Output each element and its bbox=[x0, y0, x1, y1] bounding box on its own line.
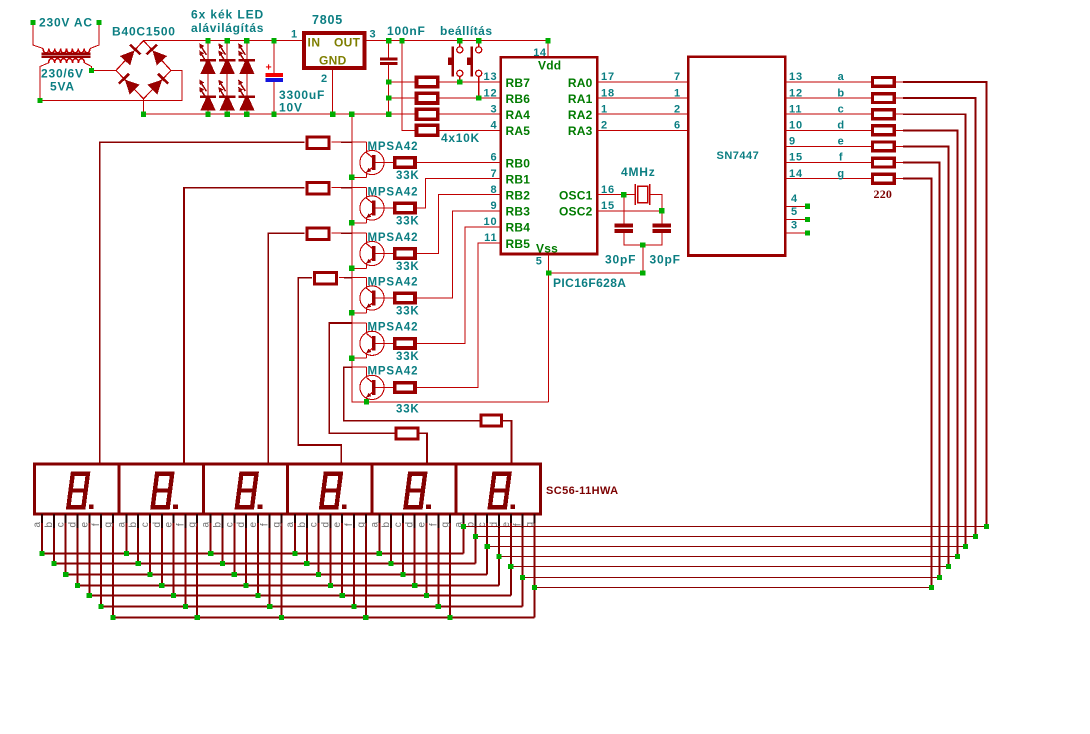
svg-text:OSC2: OSC2 bbox=[559, 205, 593, 219]
node OSC1/C3 bbox=[621, 192, 626, 197]
svg-text:18: 18 bbox=[601, 87, 615, 99]
wire AC1 to bridge left bbox=[92, 70, 117, 72]
wire Q6 base to RB5 pin 11 bbox=[417, 243, 501, 387]
svg-text:g: g bbox=[440, 522, 451, 528]
wire Vss down bbox=[548, 273, 550, 402]
wire C3 bottom lead bbox=[624, 233, 643, 245]
LED D10 (column 3 lower) bbox=[240, 83, 245, 91]
wire Q2 base lead bbox=[376, 207, 393, 209]
svg-text:4: 4 bbox=[490, 120, 497, 132]
svg-text:c: c bbox=[224, 522, 235, 527]
node Q4 emitter junction bbox=[349, 310, 354, 315]
transformer TR1 primary winding bbox=[43, 49, 90, 53]
node segment c right corner bbox=[963, 544, 968, 549]
wire segment b net to display 6 bbox=[475, 536, 975, 538]
node RB6 net tap bbox=[386, 95, 391, 100]
node segment b at display 6 bbox=[473, 534, 478, 539]
node display 3 pin e junction bbox=[255, 593, 260, 598]
node SW1 to RB7 bbox=[457, 79, 462, 84]
svg-text:6: 6 bbox=[490, 152, 497, 164]
node +V at C1 bbox=[271, 38, 276, 43]
display DS2 digit 8 bbox=[150, 472, 174, 510]
svg-text:b: b bbox=[44, 521, 55, 527]
wire to RN1b bbox=[389, 97, 415, 99]
wire R14 to display 5 common bbox=[419, 433, 427, 464]
wire display 6 pin a bbox=[463, 514, 465, 553]
svg-text:12: 12 bbox=[789, 87, 803, 99]
wire LED column 3 bbox=[246, 41, 248, 115]
node secondary right bbox=[89, 68, 94, 73]
display DS3 SC56-11HWA (digit 3) bbox=[203, 464, 287, 514]
transistor Q3 MPSA42 bbox=[360, 241, 384, 265]
display DS5 SC56-11HWA (digit 5) bbox=[372, 464, 456, 514]
wire display 3 pin e bbox=[257, 514, 259, 595]
wire display 1 pin d bbox=[77, 514, 79, 585]
wire display 2 pin f bbox=[184, 514, 186, 606]
LED D6 (column 1 lower) bbox=[201, 83, 206, 91]
svg-text:beállítás: beállítás bbox=[440, 24, 493, 38]
wire Q3 base to RB2 pin 8 bbox=[417, 195, 501, 254]
voltage regulator U3 7805 bbox=[304, 33, 365, 68]
node segment a right corner bbox=[984, 524, 989, 529]
node segment c at display 6 bbox=[485, 544, 490, 549]
wire segment e stub bbox=[896, 145, 903, 147]
node Q6 emitter junction bbox=[364, 399, 369, 404]
node ground at 7805 bbox=[330, 112, 335, 117]
svg-text:MPSA42: MPSA42 bbox=[368, 232, 419, 244]
wire RN1d to RA5 pin 4 bbox=[440, 129, 501, 131]
svg-text:PIC16F628A: PIC16F628A bbox=[553, 276, 626, 290]
node ground at C1 bbox=[271, 112, 276, 117]
wire display 4 pin g bbox=[365, 514, 367, 617]
wire display 2 pin b bbox=[137, 514, 139, 563]
svg-text:1: 1 bbox=[291, 29, 298, 41]
svg-text:d: d bbox=[68, 522, 79, 528]
resistor R3 220 (segment b) bbox=[873, 94, 895, 103]
wire Q4 emitter to rail bbox=[352, 312, 367, 314]
wire Q5 collector lead bbox=[366, 323, 368, 334]
wire display 2 pin d bbox=[161, 514, 163, 585]
node display 4 pin c junction bbox=[316, 572, 321, 577]
svg-text:230V AC: 230V AC bbox=[39, 16, 93, 30]
svg-text:RB0: RB0 bbox=[506, 156, 531, 170]
wire segment dark (digit3 net) bbox=[341, 232, 352, 234]
wire SN7447 output e to R6 bbox=[785, 145, 871, 147]
svg-text:c: c bbox=[309, 522, 320, 527]
node display 5 pin c junction bbox=[400, 572, 405, 577]
node +5V at C2 bbox=[386, 38, 391, 43]
svg-text:g: g bbox=[187, 522, 198, 528]
wire +V top bus bbox=[144, 40, 549, 42]
node display 5 pin d junction bbox=[412, 583, 417, 588]
svg-text:RB4: RB4 bbox=[506, 221, 531, 235]
svg-text:10: 10 bbox=[483, 216, 497, 228]
node display 4 pin e junction bbox=[340, 593, 345, 598]
svg-text:Vdd: Vdd bbox=[538, 59, 561, 73]
node LED column 1 top bbox=[205, 38, 210, 43]
svg-text:a: a bbox=[116, 521, 127, 527]
wire Q1 collector lead bbox=[366, 142, 368, 153]
wire RA0 to SN7447 bbox=[597, 81, 688, 83]
svg-text:11: 11 bbox=[484, 232, 497, 244]
wire 7805 GND to ground bus bbox=[332, 70, 334, 114]
node display 1 pin c junction bbox=[63, 572, 68, 577]
wire Q4 collector lead bbox=[366, 278, 368, 289]
resistor R14 (digit 5) bbox=[396, 428, 418, 439]
svg-text:c: c bbox=[140, 522, 151, 527]
svg-text:a: a bbox=[838, 71, 845, 83]
wire SN7447 output c to R4 bbox=[785, 113, 871, 115]
wire Q5 emitter lead bbox=[366, 353, 368, 358]
node 230V AC terminal right bbox=[96, 20, 101, 25]
display DS5 decimal point bbox=[426, 505, 431, 509]
capacitor C3 30pF bbox=[615, 223, 634, 227]
wire Q2 emitter to rail bbox=[352, 222, 367, 224]
svg-text:33K: 33K bbox=[396, 216, 420, 228]
node segment g right corner bbox=[929, 585, 934, 590]
wire SN7447 output b to R3 bbox=[785, 97, 871, 99]
resistor R8 220 (segment g) bbox=[873, 174, 895, 183]
capacitor C1 3300uF 10V (polarized) bbox=[265, 73, 283, 77]
svg-text:15: 15 bbox=[789, 152, 803, 164]
svg-text:15: 15 bbox=[601, 200, 615, 212]
svg-text:e: e bbox=[164, 521, 175, 527]
wire segment g stub bbox=[896, 178, 903, 180]
resistor R6 220 (segment e) bbox=[873, 142, 895, 151]
svg-text:14: 14 bbox=[533, 47, 547, 59]
wire segment c down right side bbox=[903, 114, 966, 546]
svg-text:30pF: 30pF bbox=[650, 253, 681, 267]
display DS4 decimal point bbox=[342, 505, 347, 509]
node RB7 net tap bbox=[386, 79, 391, 84]
svg-text:a: a bbox=[285, 521, 296, 527]
wire +5V to Vdd pin 14 bbox=[547, 41, 549, 58]
svg-text:1: 1 bbox=[674, 87, 681, 99]
resistor R15 (digit 6) bbox=[481, 415, 502, 426]
svg-text:f: f bbox=[91, 523, 102, 526]
svg-text:5: 5 bbox=[536, 256, 543, 268]
wire Q1 emitter to rail bbox=[352, 176, 367, 178]
wire C1 top lead bbox=[273, 41, 275, 74]
node SW2 to RB6 bbox=[476, 95, 481, 100]
svg-text:4x10K: 4x10K bbox=[441, 131, 480, 145]
svg-text:e: e bbox=[248, 521, 259, 527]
wire Q2 base to RB1 pin 7 bbox=[417, 179, 501, 208]
svg-text:g: g bbox=[837, 168, 844, 180]
transistor Q1 MPSA42 bbox=[360, 150, 384, 174]
wire segment d down right side bbox=[903, 130, 958, 556]
svg-text:8: 8 bbox=[490, 184, 497, 196]
svg-text:e: e bbox=[417, 521, 428, 527]
svg-text:9: 9 bbox=[490, 200, 497, 212]
wire Q3 collector to R12 bbox=[332, 232, 367, 234]
svg-text:RA0: RA0 bbox=[568, 76, 593, 90]
resistor RN1d (4x10K) bbox=[417, 125, 438, 135]
svg-text:g: g bbox=[272, 522, 283, 528]
wire Q1 collector to R10 bbox=[332, 141, 367, 143]
svg-text:d: d bbox=[152, 522, 163, 528]
wire display 2 pin e bbox=[173, 514, 175, 595]
wire segment a down right side bbox=[903, 82, 987, 527]
svg-text:RB7: RB7 bbox=[506, 76, 531, 90]
resistor R10 (digit 1) bbox=[307, 137, 329, 148]
node SN7447 pin 3 stub end bbox=[805, 230, 810, 235]
svg-text:c: c bbox=[393, 522, 404, 527]
node display 3 pin f junction bbox=[267, 604, 272, 609]
wire Q4 emitter lead bbox=[366, 308, 368, 313]
wire display 4 pin a bbox=[294, 514, 296, 553]
node display 3 pin b junction bbox=[220, 561, 225, 566]
wire display 2 pin a bbox=[125, 514, 127, 553]
svg-text:33K: 33K bbox=[396, 403, 420, 415]
wire display 3 pin g bbox=[281, 514, 283, 617]
svg-text:b: b bbox=[837, 87, 844, 99]
node secondary left bottom bbox=[37, 98, 42, 103]
wire R13 to display 4 common bbox=[298, 278, 341, 465]
wire display 4 pin e bbox=[341, 514, 343, 595]
svg-text:7805: 7805 bbox=[312, 13, 343, 27]
svg-text:4MHz: 4MHz bbox=[621, 165, 656, 179]
resistor RN1c (4x10K) bbox=[417, 109, 438, 119]
wire display 3 pin d bbox=[245, 514, 247, 585]
node display 3 pin d junction bbox=[244, 583, 249, 588]
wire RN1b to RB6 pin 12 bbox=[440, 97, 501, 99]
node display 1 pin b junction bbox=[51, 561, 56, 566]
node display 3 pin a junction bbox=[208, 551, 213, 556]
wire Q2 collector to R11 bbox=[332, 187, 367, 189]
wire SN7447 output d to R5 bbox=[785, 129, 871, 131]
wire Q2 collector lead bbox=[366, 188, 368, 199]
node Q1 emitter junction bbox=[349, 175, 354, 180]
node display 4 pin f junction bbox=[351, 604, 356, 609]
wire display 5 pin b bbox=[390, 514, 392, 563]
node Vss bbox=[546, 270, 551, 275]
svg-text:3: 3 bbox=[791, 220, 798, 232]
svg-text:4: 4 bbox=[791, 193, 798, 205]
wire OSC1 bbox=[597, 194, 635, 196]
node display 2 pin d junction bbox=[159, 583, 164, 588]
wire Q5 base to RB4 pin 10 bbox=[417, 227, 501, 343]
svg-text:MPSA42: MPSA42 bbox=[368, 322, 419, 334]
resistor RN1b (4x10K) bbox=[417, 93, 438, 103]
wire R11 to display 2 common bbox=[184, 188, 305, 465]
svg-text:10: 10 bbox=[789, 120, 803, 132]
resistor 33K (Q2 base) bbox=[395, 203, 415, 212]
wire Q6 collector lead bbox=[366, 367, 368, 378]
svg-text:MPSA42: MPSA42 bbox=[368, 141, 419, 153]
display DS5 digit 8 bbox=[403, 472, 427, 510]
wire display 2 pin g bbox=[196, 514, 198, 617]
display DS4 SC56-11HWA (digit 4) bbox=[288, 464, 372, 514]
svg-text:c: c bbox=[838, 103, 845, 115]
node SN7447 pin 5 stub end bbox=[805, 217, 810, 222]
wire segment g net to display 6 bbox=[534, 587, 931, 589]
wire segment g down right side bbox=[903, 179, 932, 588]
svg-text:e: e bbox=[79, 521, 90, 527]
wire display 5 pin d bbox=[414, 514, 416, 585]
svg-text:7: 7 bbox=[674, 71, 681, 83]
wire R15 to display 6 common bbox=[503, 421, 511, 465]
wire display 5 pin a bbox=[378, 514, 380, 553]
svg-text:SC56-11HWA: SC56-11HWA bbox=[546, 485, 618, 497]
svg-text:9: 9 bbox=[789, 136, 796, 148]
wire crystal to OSC2 bbox=[650, 195, 662, 211]
wire Q1 emitter lead bbox=[366, 172, 368, 177]
wire +5V to RN1d bbox=[402, 41, 415, 131]
svg-text:6x kék LED: 6x kék LED bbox=[191, 8, 264, 22]
wire display 4 pin c bbox=[318, 514, 320, 574]
wire secondary left lead bbox=[40, 63, 49, 101]
svg-text:33K: 33K bbox=[396, 351, 420, 363]
display DS1 SC56-11HWA (digit 1) bbox=[35, 464, 119, 514]
transistor Q5 MPSA42 bbox=[360, 331, 384, 355]
wire display 3 pin a bbox=[210, 514, 212, 553]
svg-text:f: f bbox=[175, 523, 186, 526]
transistor Q2 MPSA42 bbox=[360, 196, 384, 220]
wire display 1 pin f bbox=[100, 514, 102, 606]
node ground at C2 bbox=[386, 112, 391, 117]
svg-text:alávilágítás: alávilágítás bbox=[191, 21, 264, 35]
wire display 5 pin c bbox=[402, 514, 404, 574]
display driver U2 SN7447 bbox=[688, 57, 785, 256]
diode D1 (bridge top-left) bbox=[120, 50, 135, 65]
wire segment buses under displays bbox=[42, 553, 464, 555]
svg-text:RB5: RB5 bbox=[506, 237, 531, 251]
wire Q3 emitter lead bbox=[366, 263, 368, 268]
wire Q6 collector to R15 bbox=[344, 367, 480, 421]
svg-text:MPSA42: MPSA42 bbox=[368, 186, 419, 198]
svg-text:220: 220 bbox=[874, 187, 893, 201]
svg-text:2: 2 bbox=[674, 103, 681, 115]
wire C2 bottom lead / net to resistor network bbox=[388, 65, 390, 114]
svg-text:12: 12 bbox=[483, 87, 497, 99]
wire RA2 to SN7447 bbox=[597, 113, 688, 115]
wire Q2 emitter lead bbox=[366, 218, 368, 223]
svg-text:16: 16 bbox=[601, 184, 615, 196]
svg-text:d: d bbox=[405, 522, 416, 528]
svg-text:f: f bbox=[839, 152, 843, 164]
svg-text:2: 2 bbox=[321, 73, 328, 85]
node Q5 emitter junction bbox=[349, 356, 354, 361]
svg-text:a: a bbox=[201, 521, 212, 527]
svg-text:c: c bbox=[56, 522, 67, 527]
svg-text:230/6V: 230/6V bbox=[41, 67, 84, 81]
node 230V AC terminal left bbox=[30, 20, 35, 25]
svg-text:b: b bbox=[213, 521, 224, 527]
resistor 33K (Q5 base) bbox=[395, 339, 415, 348]
svg-text:b: b bbox=[381, 521, 392, 527]
svg-text:RB2: RB2 bbox=[506, 189, 531, 203]
wire secondary right lead bbox=[85, 63, 92, 71]
svg-text:OSC1: OSC1 bbox=[559, 189, 593, 203]
wire segment dark (digit2 net) bbox=[341, 187, 352, 189]
wire SN7447 output a to R2 bbox=[785, 81, 871, 83]
wire LED column 2 bbox=[226, 41, 228, 115]
wire display 1 pin c bbox=[65, 514, 67, 574]
svg-text:f: f bbox=[344, 523, 355, 526]
wire C1 bottom lead bbox=[273, 82, 275, 114]
node Q3 emitter junction bbox=[349, 266, 354, 271]
display DS6 digit 8 bbox=[487, 472, 511, 510]
node segment f at display 6 bbox=[520, 575, 525, 580]
display DS1 decimal point bbox=[89, 505, 94, 509]
wire Q5 base lead bbox=[376, 342, 393, 344]
wire segment b down right side bbox=[903, 98, 976, 536]
resistor RN1a (4x10K) bbox=[417, 77, 438, 87]
svg-text:d: d bbox=[320, 522, 331, 528]
wire C2 net to RN1a bbox=[389, 81, 415, 83]
node display 2 pin c junction bbox=[147, 572, 152, 577]
node C3/C4 common bbox=[640, 242, 645, 247]
wire C2 top lead bbox=[388, 41, 390, 58]
transistor Q6 MPSA42 bbox=[360, 375, 384, 399]
svg-text:33K: 33K bbox=[396, 261, 420, 273]
node rail at ground bus bbox=[349, 112, 354, 117]
wire display 6 pin d bbox=[498, 514, 500, 585]
wire display 6 pin b bbox=[474, 514, 476, 563]
wire segment b stub bbox=[896, 97, 903, 99]
node display 1 pin d junction bbox=[75, 583, 80, 588]
node display 3 pin g junction bbox=[279, 615, 284, 620]
svg-text:+: + bbox=[266, 62, 272, 74]
svg-text:1: 1 bbox=[601, 103, 608, 115]
wire segment f stub bbox=[896, 162, 903, 164]
wire Q1 base to RB0 pin 6 bbox=[417, 162, 501, 164]
wire AC2 to bridge right bbox=[40, 71, 182, 101]
bridge rectifier B40C1500 diamond bbox=[116, 41, 171, 99]
wire SN7447 pin 5 stub bbox=[785, 219, 805, 221]
resistor 33K (Q1 base) bbox=[395, 158, 415, 167]
wire display 6 pin c bbox=[486, 514, 488, 574]
svg-text:2: 2 bbox=[601, 120, 608, 132]
wire RA3 to SN7447 bbox=[597, 129, 688, 131]
node segment f right corner bbox=[937, 575, 942, 580]
svg-text:f: f bbox=[428, 523, 439, 526]
svg-text:RA1: RA1 bbox=[568, 92, 593, 106]
resistor 33K (Q3 base) bbox=[395, 249, 415, 258]
node LED column 2 top bbox=[225, 38, 230, 43]
resistor R12 (digit 3) bbox=[307, 228, 329, 239]
svg-text:a: a bbox=[369, 521, 380, 527]
resistor R11 (digit 2) bbox=[307, 183, 329, 194]
LED D5 (column 1 upper) bbox=[201, 47, 206, 55]
svg-text:b: b bbox=[297, 521, 308, 527]
node display 2 pin g junction bbox=[195, 615, 200, 620]
wire RN1a to RB7 pin 13 bbox=[440, 81, 501, 83]
wire segment c net to display 6 bbox=[487, 546, 965, 548]
capacitor C2 100nF bbox=[380, 58, 398, 61]
transistor Q4 MPSA42 bbox=[360, 286, 384, 310]
LED D8 (column 2 lower) bbox=[221, 83, 226, 91]
wire segment a stub bbox=[896, 81, 903, 83]
diode D4 (bridge bottom-right) bbox=[147, 80, 162, 95]
svg-text:OUT: OUT bbox=[334, 36, 361, 50]
wire display 1 pin b bbox=[53, 514, 55, 563]
wire SN7447 pin 3 stub bbox=[785, 232, 805, 234]
node LED column 2 bottom bbox=[225, 112, 230, 117]
svg-text:SN7447: SN7447 bbox=[717, 150, 760, 162]
svg-text:3: 3 bbox=[490, 103, 497, 115]
node display 1 pin g junction bbox=[110, 615, 115, 620]
node +5V to Vdd bbox=[545, 38, 550, 43]
wire display 4 pin f bbox=[353, 514, 355, 606]
node display 4 pin a junction bbox=[292, 551, 297, 556]
svg-text:10V: 10V bbox=[279, 101, 303, 115]
wire primary right lead bbox=[90, 25, 99, 49]
node display 4 pin b junction bbox=[304, 561, 309, 566]
resistor R13 (digit 4) bbox=[315, 273, 337, 284]
display DS1 digit 8 bbox=[66, 472, 90, 510]
